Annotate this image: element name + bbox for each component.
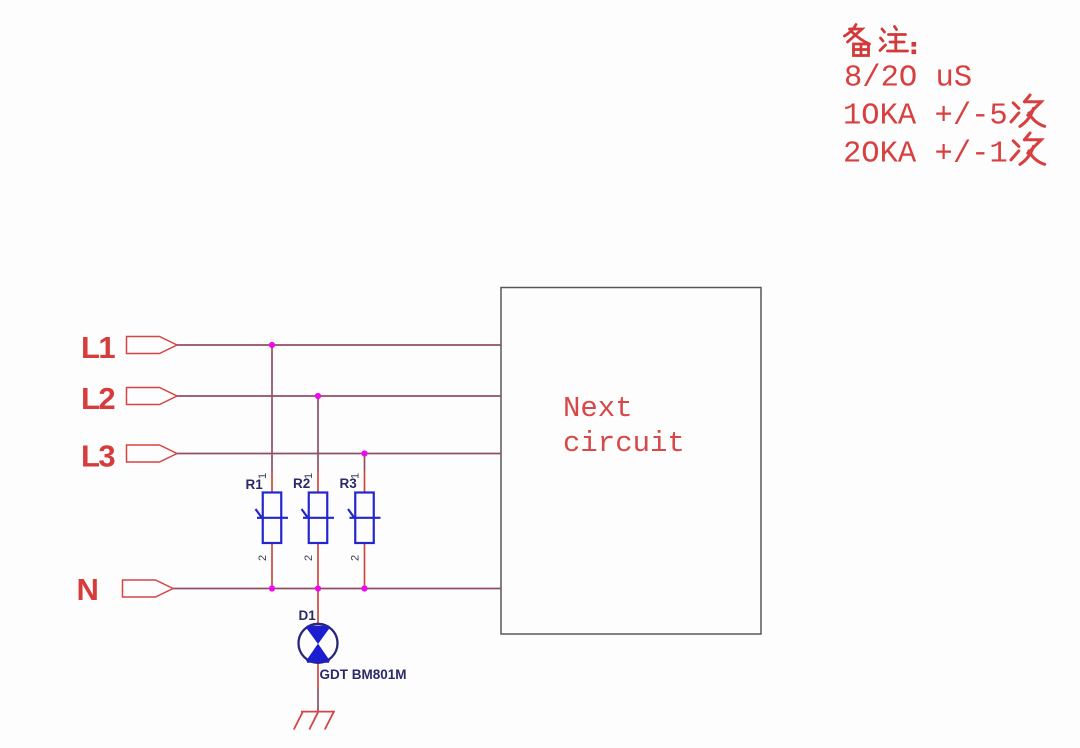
svg-text:L2: L2 (81, 381, 114, 416)
svg-text:GDT BM801M: GDT BM801M (320, 667, 407, 682)
svg-text:1OKA +/-5: 1OKA +/-5 (843, 100, 1008, 134)
svg-text:1: 1 (350, 473, 362, 479)
svg-text:8/2O uS: 8/2O uS (844, 62, 972, 96)
svg-text:circuit: circuit (563, 427, 685, 460)
svg-text:1: 1 (303, 473, 315, 479)
svg-text:L1: L1 (81, 330, 115, 365)
svg-text:N: N (77, 572, 98, 607)
svg-text:L3: L3 (81, 439, 115, 474)
svg-text:D1: D1 (299, 608, 317, 623)
svg-text:2: 2 (303, 555, 315, 561)
svg-text:2: 2 (257, 555, 269, 561)
svg-text:Next: Next (563, 392, 633, 425)
svg-text:2OKA +/-1: 2OKA +/-1 (843, 138, 1008, 172)
svg-text:2: 2 (350, 555, 362, 561)
svg-text:1: 1 (257, 473, 269, 479)
